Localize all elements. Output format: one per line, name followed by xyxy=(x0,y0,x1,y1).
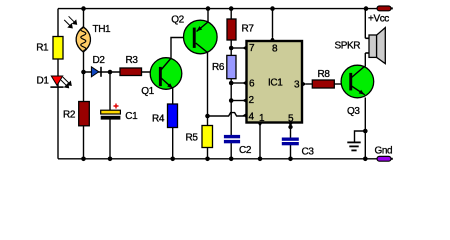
wire C1 column xyxy=(109,72,111,159)
pin 4 xyxy=(243,113,247,118)
svg-text:7: 7 xyxy=(249,43,255,54)
capacitor C3 xyxy=(282,138,299,146)
junction Q2 emitter top rail xyxy=(206,6,211,11)
wire D2-R3-Q1 base row xyxy=(84,71,160,73)
junction R2 bottom rail xyxy=(81,157,86,162)
svg-text:Q3: Q3 xyxy=(347,106,360,117)
svg-text:C1: C1 xyxy=(125,111,138,122)
node D2 cathode / C1 / R3 xyxy=(108,70,113,75)
wire pin2 xyxy=(231,100,244,102)
wire pin6 xyxy=(231,82,244,84)
svg-text:IC1: IC1 xyxy=(268,78,283,89)
svg-text:8: 8 xyxy=(272,44,278,55)
svg-text:Q2: Q2 xyxy=(171,14,184,25)
svg-text:R5: R5 xyxy=(186,133,199,144)
svg-text:R7: R7 xyxy=(242,24,255,35)
svg-text:D1: D1 xyxy=(37,76,50,87)
pin 6 xyxy=(243,81,247,86)
svg-text:+Vcc: +Vcc xyxy=(368,14,389,25)
svg-text:Q1: Q1 xyxy=(141,86,154,97)
wire R7/R6/C2 column xyxy=(230,9,232,159)
wire pin8 xyxy=(272,9,274,37)
resistor R6 xyxy=(227,55,236,78)
LED D1 xyxy=(50,76,71,88)
svg-text:SPKR: SPKR xyxy=(335,41,361,52)
resistor R5 xyxy=(202,126,213,148)
resistor R7 xyxy=(227,19,236,40)
wire ground tap xyxy=(355,131,366,142)
IC1 555 timer body xyxy=(247,41,303,123)
transistor Q1 xyxy=(150,58,182,90)
wire bottom rail xyxy=(58,158,377,160)
svg-text:1: 1 xyxy=(259,113,265,124)
wire speaker top xyxy=(364,9,366,39)
transistor Q3 xyxy=(341,65,374,98)
Gnd terminal xyxy=(377,156,391,161)
svg-text:D2: D2 xyxy=(93,55,106,66)
pin 1 xyxy=(258,123,263,127)
capacitor C1 xyxy=(101,104,121,120)
junction TH1 top rail xyxy=(81,6,86,11)
pin 8 xyxy=(270,37,275,41)
wire Q3 emitter to ground rail xyxy=(364,98,366,159)
svg-text:R3: R3 xyxy=(126,55,139,66)
diode D2 xyxy=(91,67,101,77)
svg-text:R6: R6 xyxy=(212,62,225,73)
capacitor C2 xyxy=(224,135,240,143)
node TH1/R2/D2 xyxy=(81,70,86,75)
junction C1 bottom rail xyxy=(108,157,113,162)
wire Q1 emitter / R4 column xyxy=(172,88,174,159)
wire speaker bottom to Q3 collector xyxy=(364,53,366,67)
wire Q1 collector to Q2 base xyxy=(171,38,193,59)
svg-text:Gnd: Gnd xyxy=(375,145,393,156)
svg-text:4: 4 xyxy=(249,112,255,123)
pin 5 xyxy=(288,123,293,127)
wire top rail xyxy=(58,8,377,10)
svg-text:R4: R4 xyxy=(152,114,165,125)
junction C3 bottom rail xyxy=(288,157,293,162)
junction C2 bottom rail xyxy=(229,157,234,162)
svg-text:TH1: TH1 xyxy=(93,24,112,35)
junction pin8 top rail xyxy=(270,6,275,11)
transistor Q2 xyxy=(184,20,218,54)
junction Q3 emitter bottom rail xyxy=(363,157,368,162)
node pin2 / C2 column xyxy=(229,98,234,103)
resistor R1 xyxy=(53,37,63,60)
resistor R8 xyxy=(312,80,334,88)
wire pin4 row with hop xyxy=(208,113,245,116)
pin 3 xyxy=(303,82,307,87)
junction R7 top rail xyxy=(229,6,234,11)
svg-text:R8: R8 xyxy=(318,69,331,80)
svg-text:3: 3 xyxy=(294,80,300,91)
junction pin1 bottom rail xyxy=(258,157,263,162)
wire Q2 collector / R5 column xyxy=(207,52,209,159)
node Q2 collector / R5 / pin4 xyxy=(205,114,210,119)
svg-text:5: 5 xyxy=(288,114,294,125)
+Vcc terminal xyxy=(377,6,391,11)
wire left column R1/D1 xyxy=(57,9,59,159)
pin 2 xyxy=(243,98,247,103)
wire pin3 to R8 xyxy=(306,83,313,85)
svg-text:6: 6 xyxy=(249,79,255,90)
node R7/R6/pin7 xyxy=(229,46,234,51)
node R6 bottom / pin6 xyxy=(229,81,234,86)
wire TH1/R2 column xyxy=(83,9,85,159)
wire Q2 emitter to top rail xyxy=(207,9,209,22)
wire pin1 to ground rail xyxy=(259,125,261,159)
svg-text:R2: R2 xyxy=(63,110,76,121)
junction R4 bottom rail xyxy=(170,157,175,162)
resistor R3 xyxy=(120,68,142,76)
pin 7 xyxy=(243,46,247,51)
junction R5 bottom rail xyxy=(205,157,210,162)
svg-text:C3: C3 xyxy=(302,147,315,158)
node pin5 / C3 xyxy=(288,125,292,129)
svg-text:R1: R1 xyxy=(36,43,49,54)
thermistor TH1 xyxy=(64,16,90,52)
resistor R2 xyxy=(79,102,90,126)
svg-text:C2: C2 xyxy=(239,145,252,156)
ground xyxy=(347,142,360,150)
node Q3 emitter / ground tap xyxy=(363,129,368,134)
resistor R4 xyxy=(168,104,178,128)
junction speaker top rail xyxy=(364,6,369,11)
svg-text:2: 2 xyxy=(249,95,255,106)
speaker SPKR xyxy=(365,28,385,64)
wire pin5 / C3 column xyxy=(290,125,292,159)
wire pin7 xyxy=(231,47,244,49)
wire R8 to Q3 base xyxy=(335,83,350,85)
